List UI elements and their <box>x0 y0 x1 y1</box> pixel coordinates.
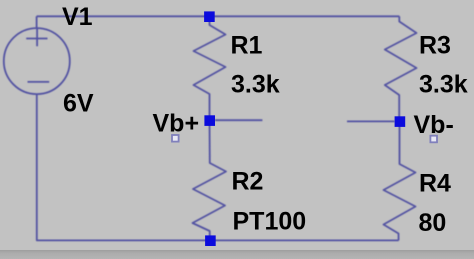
wire Vb- stub <box>347 120 395 122</box>
resistor R1 <box>194 17 226 120</box>
wire left rail <box>36 16 38 29</box>
junction node top <box>204 11 215 22</box>
svg-text:V1: V1 <box>62 3 93 31</box>
wire top rail <box>37 15 400 17</box>
resistor R3 <box>385 16 417 121</box>
svg-text:80: 80 <box>419 209 447 237</box>
wire Vb+ stub <box>215 119 262 121</box>
V1 minus sign <box>28 81 50 83</box>
svg-text:R3: R3 <box>419 32 451 60</box>
svg-text:R4: R4 <box>419 170 451 198</box>
svg-text:R2: R2 <box>232 168 264 196</box>
svg-text:Vb-: Vb- <box>414 111 454 139</box>
svg-text:3.3k: 3.3k <box>419 71 468 99</box>
net flag marker Vb- <box>430 136 437 143</box>
svg-text:R1: R1 <box>231 32 263 60</box>
svg-text:3.3k: 3.3k <box>231 71 280 99</box>
wire bottom-left rail <box>37 94 399 241</box>
net flag marker Vb+ <box>172 135 179 142</box>
svg-text:PT100: PT100 <box>233 208 307 236</box>
resistor R2 <box>193 120 227 240</box>
junction node Vb+ <box>204 115 215 126</box>
voltage source V1 <box>4 28 70 94</box>
svg-text:Vb+: Vb+ <box>153 110 200 138</box>
resistor R4 <box>384 121 416 240</box>
junction node Vb- <box>395 116 406 127</box>
junction node bottom <box>205 235 216 246</box>
svg-text:6V: 6V <box>63 90 94 118</box>
V1 plus sign <box>26 27 47 46</box>
bottom edge band <box>0 250 474 259</box>
